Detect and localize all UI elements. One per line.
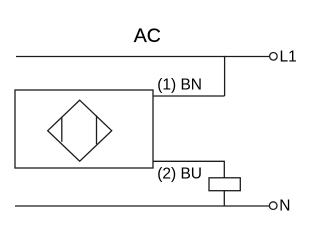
proximity sensor box [15, 90, 153, 168]
wire L1 top rail [16, 56, 269, 58]
wire BU vertical to load [223, 161, 225, 178]
svg-text:AC: AC [134, 25, 161, 47]
wire BU stub horizontal [153, 160, 224, 162]
sensor diamond symbol [48, 100, 112, 161]
load resistor [209, 178, 240, 191]
terminal L1 [270, 53, 278, 61]
svg-text:(1) BN: (1) BN [157, 76, 202, 93]
wire load to N rail [223, 191, 225, 206]
wire BN stub horizontal [153, 95, 225, 97]
terminal N [269, 202, 277, 210]
wire N bottom rail [15, 205, 269, 207]
svg-text:(2) BU: (2) BU [157, 166, 202, 183]
diamond left chord [61, 117, 63, 142]
svg-text:N: N [279, 198, 290, 215]
svg-text:L1: L1 [280, 48, 297, 65]
diamond right chord [96, 115, 98, 144]
wire BN vertical to L1 rail [224, 56, 226, 96]
